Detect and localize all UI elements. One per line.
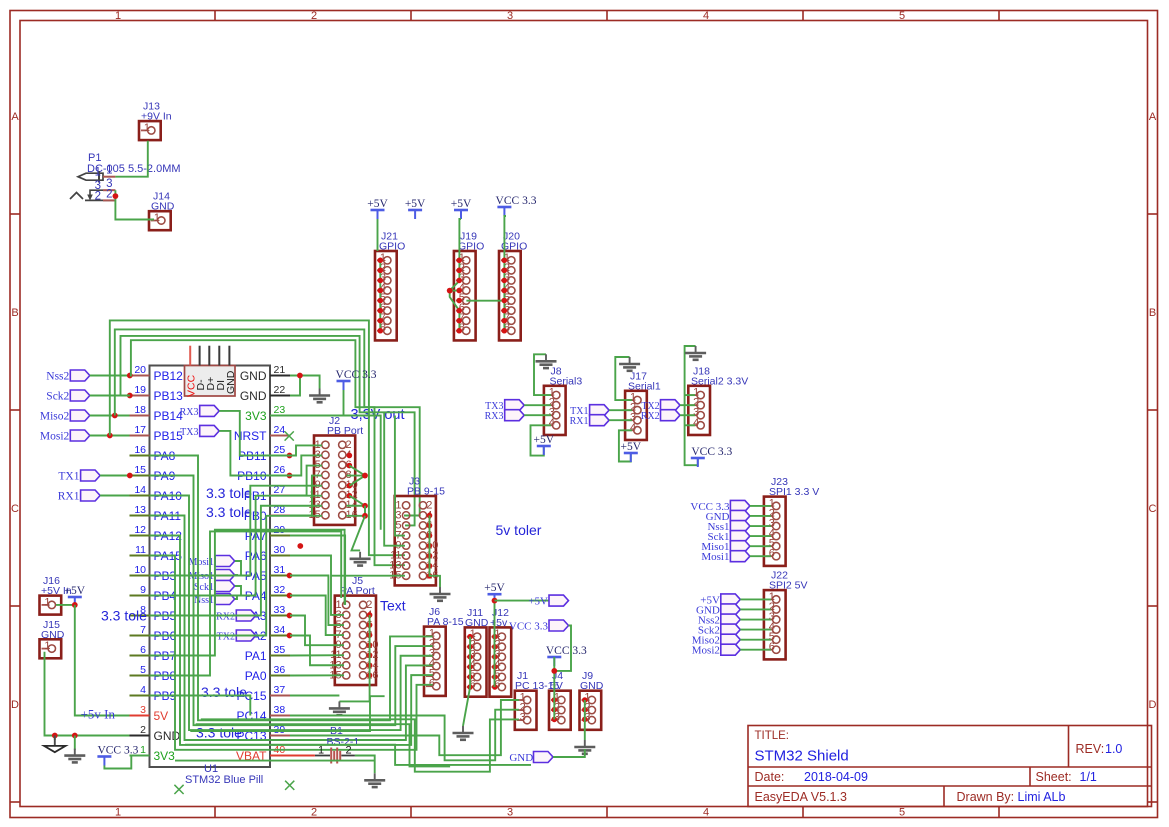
wire rail to J3 pin9 bbox=[384, 412, 405, 545]
ground (below J2) bbox=[350, 552, 371, 566]
svg-text:14: 14 bbox=[134, 484, 146, 496]
wire PA7 to J5 pin1 bbox=[290, 536, 345, 605]
ground (J15) bbox=[64, 749, 85, 763]
DC jack P1 bbox=[70, 152, 181, 202]
net label Miso2 bbox=[40, 411, 70, 423]
flag TX1 bbox=[81, 470, 101, 481]
bus PB14 to J3 pin13 bbox=[115, 329, 405, 565]
net label +5v In bbox=[81, 707, 116, 722]
svg-text:22: 22 bbox=[274, 384, 286, 396]
svg-text:3.3 tole: 3.3 tole bbox=[101, 608, 147, 624]
net label Nss2 bbox=[46, 371, 69, 383]
net label RX2 (J18) bbox=[641, 411, 660, 422]
flag Sck1 bbox=[730, 531, 750, 542]
U1 pin 34 PA2 (right) bbox=[245, 624, 290, 643]
net label RX1 (J17) bbox=[570, 416, 589, 427]
svg-text:Sheet:: Sheet: bbox=[1036, 770, 1072, 784]
wire PC15 to J5 ground net bbox=[290, 695, 339, 697]
svg-text:TX3: TX3 bbox=[180, 427, 198, 438]
svg-text:26: 26 bbox=[274, 464, 286, 476]
wire to chassis ground bbox=[74, 736, 76, 751]
wire PB1 to J2 pin5 bbox=[290, 466, 322, 496]
J11 pads bbox=[467, 634, 473, 690]
svg-text:+5V: +5V bbox=[451, 198, 472, 210]
U1 pin 17 PB15 (left) bbox=[130, 424, 184, 443]
svg-text:A: A bbox=[1149, 111, 1157, 123]
net label GND bbox=[509, 752, 533, 764]
wire PA15 to J6 pin6 bbox=[150, 556, 433, 750]
bus PB13 to J3 pin5 bbox=[121, 336, 415, 526]
svg-text:13: 13 bbox=[134, 504, 146, 516]
wire +5V to J12 chain bbox=[494, 603, 496, 687]
wire RX2 tip to PB5 bbox=[256, 615, 261, 617]
net label Sck2 bbox=[46, 391, 69, 403]
svg-text:9: 9 bbox=[140, 584, 146, 596]
svg-text:VCC 3.3: VCC 3.3 bbox=[691, 446, 732, 458]
flag Sck1 bbox=[215, 581, 235, 592]
U1 pin 5 PB8 (left) bbox=[130, 664, 177, 683]
svg-text:Drawn By:: Drawn By: bbox=[957, 790, 1015, 804]
svg-text:35: 35 bbox=[274, 644, 286, 656]
svg-text:3.3 tole: 3.3 tole bbox=[196, 725, 242, 741]
svg-text:5: 5 bbox=[899, 10, 905, 22]
net label TX2 (J18) bbox=[641, 401, 659, 412]
wire Mosi2 to pin bbox=[90, 435, 130, 437]
svg-text:4: 4 bbox=[140, 684, 146, 696]
svg-text:2: 2 bbox=[345, 745, 351, 757]
U1 pin 40 VBAT (right) bbox=[236, 744, 290, 763]
ground (J8) bbox=[536, 354, 557, 368]
wire VCC3.3 stem to 3V3 wire bbox=[343, 390, 345, 416]
svg-text:Nss2: Nss2 bbox=[46, 371, 69, 383]
flag GND bbox=[534, 752, 554, 763]
svg-text:21: 21 bbox=[274, 364, 286, 376]
svg-text:+5v In: +5v In bbox=[81, 707, 116, 722]
net label RX3 (J8) bbox=[485, 411, 504, 422]
wire PA3 to J5 pin9 bbox=[290, 616, 344, 646]
wire Mosi1 tip to PB3 bbox=[235, 561, 241, 576]
connector J18 Serial2 3.3V bbox=[688, 365, 748, 435]
wire PB8 under J2 bbox=[150, 531, 342, 675]
ground (below J11) bbox=[453, 726, 474, 740]
wire +5v In to 5V pin bbox=[75, 605, 130, 716]
svg-text:Mosi2: Mosi2 bbox=[40, 431, 70, 443]
connector J1 PC 13-15 bbox=[515, 670, 560, 730]
svg-text:11: 11 bbox=[135, 544, 146, 556]
wire GND to J23 pin2 bbox=[750, 515, 771, 517]
wire PB9 down bbox=[150, 696, 251, 716]
svg-text:RX1: RX1 bbox=[570, 416, 589, 427]
svg-text:1: 1 bbox=[106, 165, 112, 177]
power VCC 3.3 (J4) bbox=[546, 645, 587, 666]
connector J5 PA Port bbox=[329, 575, 378, 685]
junction PB11 bbox=[287, 453, 293, 459]
net label Mosi1 (J23) bbox=[701, 551, 729, 563]
net label RX2 bbox=[216, 612, 235, 623]
svg-text:+5V: +5V bbox=[405, 198, 426, 210]
svg-text:1: 1 bbox=[95, 167, 101, 179]
ground (J17) bbox=[619, 357, 640, 371]
wire J2 pin8 to junction bbox=[347, 475, 366, 477]
wire to earth ground bbox=[54, 736, 56, 741]
U1 pin 9 PB4 (left) bbox=[130, 584, 177, 603]
wire J21 pin chain bbox=[379, 260, 381, 331]
svg-text:STM32 Blue Pill: STM32 Blue Pill bbox=[185, 774, 263, 786]
net label Nss1 (J23) bbox=[707, 521, 729, 533]
net label RX1 bbox=[58, 491, 80, 503]
svg-text:3.3 tole: 3.3 tole bbox=[206, 485, 252, 501]
ground (GND21/22) bbox=[309, 389, 330, 403]
svg-text:Date:: Date: bbox=[755, 770, 785, 784]
wire RX2 to J18 pin3 bbox=[680, 414, 695, 416]
wire J2 pin12-14 zigzag bbox=[347, 496, 366, 506]
U1 pin 26 PB10 (right) bbox=[237, 464, 290, 483]
wire battery to ground bbox=[355, 756, 375, 774]
svg-text:3.3 tole: 3.3 tole bbox=[206, 504, 252, 520]
svg-text:NRST: NRST bbox=[234, 429, 267, 443]
svg-text:RX3: RX3 bbox=[180, 407, 199, 418]
flag RX3 bbox=[200, 405, 220, 416]
connector J12 +5v bbox=[490, 607, 512, 697]
junction PB15 bbox=[107, 433, 113, 439]
connector J22 SPI2 bbox=[764, 570, 808, 660]
ground (J18) bbox=[685, 346, 706, 360]
wire J17 pin1 to ground bbox=[615, 357, 632, 400]
U1 pin 20 PB12 (left) bbox=[130, 364, 184, 383]
U1 pin 13 PA11 (left) bbox=[130, 504, 182, 523]
net label Mosi2 (J22) bbox=[692, 645, 720, 657]
connector J9 GND bbox=[580, 670, 604, 730]
net label +5V bbox=[528, 596, 548, 608]
junction PA9 bbox=[127, 473, 133, 479]
svg-text:10: 10 bbox=[134, 564, 146, 576]
connector J21 GPIO bbox=[375, 231, 405, 341]
net label Mosi2 bbox=[40, 431, 70, 443]
net label Miso2 (J22) bbox=[692, 635, 720, 647]
svg-text:+5V: +5V bbox=[367, 198, 388, 210]
flag GND bbox=[730, 510, 750, 521]
wire PA6 to J5 pin3 bbox=[290, 556, 344, 615]
power VCC 3.3 (J20) bbox=[496, 195, 537, 216]
pads header at x=453.9 bbox=[456, 258, 462, 334]
svg-text:Nss1: Nss1 bbox=[194, 595, 214, 606]
svg-text:38: 38 bbox=[274, 704, 286, 716]
power +5V (J21) bbox=[367, 198, 388, 219]
flag TX3 bbox=[200, 425, 220, 436]
net label Miso1 (J23) bbox=[701, 541, 729, 553]
connector J11 GND bbox=[465, 607, 489, 697]
ground (battery) bbox=[364, 773, 385, 787]
wire nest run 4 bbox=[185, 745, 531, 765]
svg-text:1: 1 bbox=[115, 10, 121, 22]
wire PA2 to J5 pin13 bbox=[290, 636, 344, 666]
wire PB10 to J2 pin3 bbox=[290, 455, 323, 475]
svg-text:RX2: RX2 bbox=[216, 612, 235, 623]
power +5V (J12) bbox=[484, 582, 505, 603]
earth ground stem bbox=[54, 736, 56, 746]
flag Nss2 bbox=[721, 614, 741, 625]
wire PA0 to J5 pin15 bbox=[290, 674, 344, 676]
svg-text:GND: GND bbox=[225, 370, 237, 394]
svg-text:24: 24 bbox=[274, 424, 286, 436]
J3 right column pads bbox=[427, 513, 433, 579]
flag RX2 bbox=[236, 610, 256, 621]
svg-text:GND: GND bbox=[509, 752, 533, 764]
net label TX3 bbox=[180, 427, 198, 438]
connector J20 GPIO bbox=[499, 231, 527, 341]
wire RX1 to J17 pin3 bbox=[609, 419, 632, 421]
junction PB14 bbox=[112, 413, 118, 419]
wire J8 pin4 to +5V bbox=[531, 425, 552, 455]
wire into J3 pin15 bbox=[331, 575, 405, 577]
U1 pin 18 PB14 (left) bbox=[130, 404, 184, 423]
junction GND 1 bbox=[52, 733, 58, 739]
U1 pin 38 PC14 (right) bbox=[236, 704, 290, 723]
flag Mosi2 bbox=[70, 430, 90, 441]
svg-text:A: A bbox=[11, 111, 19, 123]
svg-text:+5V: +5V bbox=[65, 585, 86, 597]
wire J2 to ground bbox=[352, 516, 366, 551]
U1 pin 11 PA15 (left) bbox=[130, 544, 183, 563]
junction J2 pin14 bbox=[362, 503, 368, 509]
title block bbox=[748, 726, 1152, 807]
svg-text:25: 25 bbox=[274, 444, 286, 456]
wire PB7 under J2 bbox=[150, 530, 345, 656]
text Text bbox=[380, 598, 406, 614]
wire VCC3.3 to J20 pin chain bbox=[504, 216, 506, 331]
net label TX2 bbox=[217, 632, 235, 643]
net label +5V (J22) bbox=[700, 594, 720, 606]
wire J15 GND to GND pin bbox=[45, 652, 130, 736]
svg-text:Mosi2: Mosi2 bbox=[692, 645, 720, 657]
wire Miso1 to J23 pin5 bbox=[750, 545, 771, 547]
U1 pin 28 PB0 (right) bbox=[244, 504, 290, 523]
wire 3V3 pin23 rail bbox=[290, 416, 381, 530]
flag +5V bbox=[549, 595, 569, 606]
svg-text:+5V: +5V bbox=[484, 582, 505, 594]
svg-text:33: 33 bbox=[274, 604, 286, 616]
wire PB6 to J2 pin15 bbox=[150, 516, 323, 636]
flag RX2 bbox=[661, 410, 681, 421]
connector J16 +5V In bbox=[40, 575, 72, 615]
junction GND 2 bbox=[72, 733, 78, 739]
J2 right column pads bbox=[347, 453, 353, 499]
U1 pin 14 PA10 (left) bbox=[130, 484, 183, 503]
text 3.3 tole (PB1) bbox=[206, 485, 252, 501]
flag Nss1 bbox=[215, 594, 235, 605]
junction PB10 bbox=[287, 473, 293, 479]
flag Miso2 bbox=[70, 410, 90, 421]
svg-text:2: 2 bbox=[95, 190, 101, 202]
wire J19 pin5 to J20 pin5 bbox=[466, 300, 504, 302]
power +5V (J16) bbox=[65, 585, 86, 606]
text 3.3 tole (PC15) bbox=[201, 684, 247, 700]
wire PB4 to J2 pin11 bbox=[150, 496, 323, 596]
svg-text:7: 7 bbox=[140, 624, 146, 636]
U1 pin 19 PB13 (left) bbox=[130, 384, 184, 403]
svg-text:PB12: PB12 bbox=[154, 369, 184, 383]
wire GND22 join bbox=[290, 376, 300, 396]
U1 pin 3 5V (left) bbox=[130, 704, 169, 723]
wire PA8 to J6 pin1 bbox=[150, 456, 433, 721]
flag Sck2 bbox=[721, 624, 741, 635]
U1 pin 1 3V3 (left) bbox=[130, 744, 176, 763]
power VCC 3.3 (J18) bbox=[691, 446, 733, 467]
wire PB0 to J2 pin7 bbox=[290, 476, 322, 516]
net label GND (J22) bbox=[696, 604, 720, 616]
svg-text:VCC 3.3: VCC 3.3 bbox=[496, 195, 537, 207]
svg-text:30: 30 bbox=[274, 544, 286, 556]
wire VCC 3.3 to J23 pin1 bbox=[750, 505, 771, 507]
connector J19 GPIO bbox=[454, 231, 484, 341]
net label VCC 3.3 bbox=[509, 621, 549, 633]
svg-text:5: 5 bbox=[140, 664, 146, 676]
U1 pin 37 PC15 (right) bbox=[236, 684, 290, 703]
wire TX1 to PA9 bbox=[100, 475, 129, 477]
svg-text:EasyEDA V5.1.3: EasyEDA V5.1.3 bbox=[755, 790, 847, 804]
wire J19 junction to pins6-8 bbox=[450, 291, 460, 332]
wire Mosi2 to J22 pin6 bbox=[740, 649, 771, 651]
svg-text:2018-04-09: 2018-04-09 bbox=[804, 770, 868, 784]
wire PB5 to J2 pin13 bbox=[150, 506, 323, 616]
flag Miso1 bbox=[730, 541, 750, 552]
svg-text:2: 2 bbox=[311, 10, 317, 22]
U1 pin 15 PA9 (left) bbox=[130, 464, 176, 483]
wire J2 pin16 link bbox=[347, 506, 366, 516]
connector J2 PB Port bbox=[309, 415, 364, 525]
net label Miso1 bbox=[188, 571, 214, 582]
svg-text:1.0: 1.0 bbox=[1105, 742, 1122, 756]
text 5v toler bbox=[496, 522, 542, 538]
svg-text:RX1: RX1 bbox=[58, 491, 80, 503]
svg-text:18: 18 bbox=[134, 404, 146, 416]
bus PB15 to J3 pin11 bbox=[110, 320, 405, 555]
wire VCC3.3 to 3V3 pin1 bbox=[104, 756, 149, 769]
net label Nss1 bbox=[194, 595, 214, 606]
flag VCC 3.3 bbox=[730, 500, 750, 511]
U1 pin 25 PB11 (right) bbox=[238, 444, 290, 463]
wire +5V to J22 pin1 bbox=[740, 598, 771, 600]
bus PB12 to J3 pin3 bbox=[130, 340, 420, 515]
svg-text:16: 16 bbox=[134, 444, 146, 456]
U1 pin 6 PB7 (left) bbox=[130, 644, 177, 663]
flag RX1 bbox=[81, 490, 101, 501]
U1 pin 32 PA4 (right) bbox=[245, 584, 290, 603]
wire Miso1 tip to PB3 bbox=[235, 574, 237, 577]
U1 pin 8 PB5 (left) bbox=[130, 604, 177, 623]
wire RX1 to PA10 bbox=[100, 495, 129, 497]
net label Sck1 (J23) bbox=[708, 531, 730, 543]
svg-text:GND: GND bbox=[240, 369, 267, 383]
wire Sck1 to J23 pin4 bbox=[750, 535, 771, 537]
net label TX1 bbox=[58, 471, 79, 483]
junction J2 right bbox=[362, 473, 368, 479]
svg-text:3: 3 bbox=[507, 10, 513, 22]
U1 pin 23 3V3 (right) bbox=[245, 404, 290, 423]
connector J15 GND bbox=[40, 619, 65, 659]
power VCC 3.3 (3V3 pin23) bbox=[336, 369, 377, 390]
net label TX3 (J8) bbox=[485, 401, 503, 412]
U1 pin 36 PA0 (right) bbox=[245, 664, 290, 683]
wire J11 chain to ground bbox=[463, 637, 470, 726]
J4 pads bbox=[552, 697, 558, 722]
connector J4 5V bbox=[549, 670, 571, 730]
svg-text:VCC 3.3: VCC 3.3 bbox=[546, 645, 587, 657]
power +5V (J19) bbox=[451, 198, 472, 219]
svg-text:Mosi1: Mosi1 bbox=[701, 551, 729, 563]
wire J5 chain to ground bbox=[339, 615, 369, 701]
no-connect X (right) bbox=[285, 781, 294, 790]
power +5V (J8) bbox=[534, 434, 555, 455]
U1 pin 35 PA1 (right) bbox=[245, 644, 290, 663]
connector J17 Serial1 bbox=[625, 370, 661, 440]
flag TX1 bbox=[590, 405, 610, 416]
svg-text:32: 32 bbox=[274, 584, 286, 596]
U1 pin 39 PC13 (right) bbox=[236, 724, 290, 743]
junction row 32 bbox=[287, 593, 293, 599]
flag Nss1 bbox=[730, 521, 750, 532]
wire PC14 to J1 pin2 bbox=[290, 710, 519, 761]
wire PA12 to J6 pin5 bbox=[150, 536, 433, 745]
svg-text:C: C bbox=[11, 503, 19, 515]
wire PB11 to J2 pin1 bbox=[290, 445, 323, 455]
flag RX1 bbox=[590, 415, 610, 426]
U1 pin 31 PA5 (right) bbox=[245, 564, 290, 583]
wire J13 pin1 to P1 pin1 bbox=[115, 141, 147, 177]
net label Mosi1 bbox=[188, 557, 214, 568]
pads header at x=499 bbox=[502, 258, 508, 334]
J9 pads bbox=[582, 697, 588, 722]
flag GND bbox=[721, 604, 741, 615]
U1 pin 24 NRST (right) bbox=[234, 424, 290, 443]
J5 right column pads bbox=[367, 612, 373, 678]
flag Nss2 bbox=[70, 370, 90, 381]
wire Nss2 to pin bbox=[90, 375, 130, 377]
svg-text:+5V: +5V bbox=[528, 596, 548, 608]
flag RX3 bbox=[505, 410, 525, 421]
svg-text:VCC 3.3: VCC 3.3 bbox=[509, 621, 549, 633]
svg-text:Sck1: Sck1 bbox=[194, 582, 214, 593]
flag TX2 bbox=[661, 400, 681, 411]
U1 pin 30 PA6 (right) bbox=[245, 544, 290, 563]
wire J18 pin4 bbox=[685, 424, 695, 426]
svg-text:REV:: REV: bbox=[1076, 742, 1105, 756]
svg-text:C: C bbox=[1149, 503, 1157, 515]
U1 pin 27 PB1 (right) bbox=[244, 484, 290, 503]
junction J16 +5V bbox=[72, 602, 78, 608]
wire nest to J1 pin3 bbox=[201, 719, 519, 771]
U1 pin 16 PA8 (left) bbox=[130, 444, 176, 463]
svg-text:5V: 5V bbox=[154, 709, 169, 723]
wire PA10 to J6 pin3 bbox=[150, 496, 433, 731]
wire PA11 to J6 pin4 bbox=[150, 516, 433, 741]
U1 pin 2 GND (left) bbox=[130, 724, 181, 743]
wire J17 pin4 to +5V bbox=[619, 430, 632, 461]
flag TX2 bbox=[236, 630, 256, 641]
svg-text:TX1: TX1 bbox=[58, 471, 79, 483]
svg-text:23: 23 bbox=[274, 404, 286, 416]
wire TX1 to J17 pin2 bbox=[609, 409, 632, 411]
wire PC13 to J1 pin1 bbox=[290, 700, 519, 755]
junction row 31 bbox=[287, 573, 293, 579]
svg-text:+5V: +5V bbox=[534, 434, 555, 446]
svg-text:PA1: PA1 bbox=[245, 649, 267, 663]
wire J8 pin1 to ground bbox=[534, 354, 551, 395]
svg-text:VCC 3.3: VCC 3.3 bbox=[336, 369, 377, 381]
wire VCC3.3 flag to J4 bbox=[554, 626, 571, 671]
junction J2 pin16 bbox=[362, 513, 368, 519]
text 3.3 tole (PB5) bbox=[101, 608, 147, 624]
